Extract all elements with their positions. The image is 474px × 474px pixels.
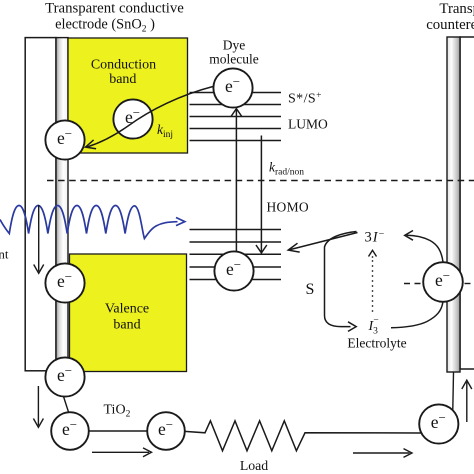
current arrow bottom left (92, 451, 149, 453)
electron circle C10 on counter electrode (423, 262, 463, 302)
svg-text:Conduction: Conduction (91, 58, 156, 73)
svg-text:krad/non: krad/non (269, 160, 304, 178)
electron injection curve k_inj (87, 87, 213, 148)
down arrow below glass (37, 386, 39, 426)
dye ground state electron circle C4 (214, 251, 253, 290)
S bracket (325, 232, 357, 327)
HOMO level lines (190, 230, 282, 280)
svg-text:3I−: 3I− (365, 229, 386, 246)
svg-text:band: band (109, 72, 136, 87)
svg-text:Incident: Incident (0, 247, 9, 262)
right counter electrode Pt bar (447, 37, 460, 372)
svg-text:LUMO: LUMO (288, 117, 328, 132)
svg-text:Load: Load (240, 458, 268, 473)
svg-text:Valence: Valence (105, 302, 149, 317)
svg-text:molecule: molecule (209, 52, 258, 67)
electron circle C9 bottom right (419, 404, 458, 443)
svg-text:electrode (SnO2 ): electrode (SnO2 ) (55, 17, 155, 35)
dye excited electron circle C3 (213, 68, 252, 107)
short dashed line at C10 (404, 283, 423, 285)
svg-text:Transparent: Transparent (439, 1, 474, 17)
wire bar to C9 (452, 373, 455, 410)
svg-text:Transparent conductive: Transparent conductive (45, 1, 184, 17)
wire C6 to C7 (64, 397, 69, 413)
wire C7 to C8 (89, 430, 147, 432)
valence band box (70, 254, 187, 372)
dotted arrow I3- to 3I- (372, 256, 374, 312)
electron circle C8 bottom chain (147, 412, 185, 450)
up arrow right (466, 382, 468, 422)
svg-text:Dye: Dye (223, 38, 246, 53)
load resistor (185, 421, 421, 451)
excited state level lines S* (190, 93, 282, 141)
svg-text:TiO2: TiO2 (104, 403, 131, 420)
electron circle C1 on left bar conduction level (45, 120, 84, 159)
excitation arrow (up) (235, 110, 237, 251)
left electrode SnO2 bar (56, 38, 68, 373)
left electrode glass layer (25, 38, 56, 371)
svg-text:Electrolyte: Electrolyte (347, 336, 406, 351)
right counter electrode glass layer (460, 37, 474, 369)
svg-text:HOMO: HOMO (267, 200, 309, 215)
conduction band box (68, 38, 188, 153)
down arrow in glass upper (38, 205, 40, 272)
recombination arrow (down) k_rad/non (260, 136, 262, 252)
svg-text:I3−: I3− (368, 316, 379, 337)
arrow C10 to 3I- (407, 235, 444, 262)
svg-text:counterelectrode: counterelectrode (426, 17, 474, 33)
electron circle C2 in conduction band (113, 99, 152, 138)
light arrowhead (176, 218, 185, 226)
Fermi level dashed line (47, 180, 474, 182)
incident light wave (0, 206, 178, 239)
curve I3- to C10 (391, 303, 443, 328)
electron circle C7 bottom chain (51, 412, 89, 450)
arrow 3I- to dye (regeneration) (290, 233, 358, 250)
svg-text:band: band (113, 318, 140, 333)
electron circle C6 left bottom (45, 357, 84, 396)
svg-text:S*/S+: S*/S+ (288, 91, 322, 107)
current arrow bottom right (353, 452, 410, 454)
electron circle C5 on left bar valence level (45, 263, 84, 302)
svg-text:S: S (306, 281, 315, 298)
